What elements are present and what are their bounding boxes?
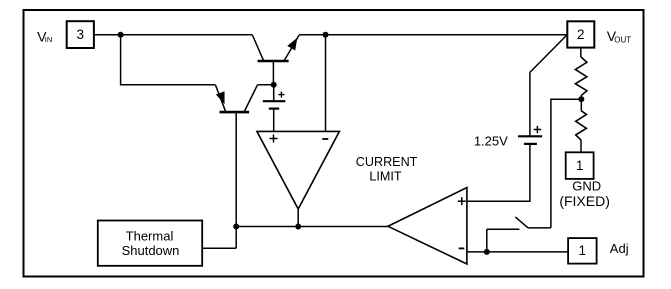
- node: rail junction to current-limit minus: [323, 32, 329, 38]
- svg-text:IN: IN: [45, 35, 53, 44]
- node: bus / thermal shutdown junction: [233, 224, 239, 230]
- svg-text:Adj: Adj: [610, 241, 629, 256]
- switch S1 (open, fixed/adjust select): [487, 217, 551, 229]
- node: R1/R2 junction: [578, 96, 584, 102]
- plus label: [458, 200, 466, 202]
- wire: R1 to junction: [580, 96, 582, 99]
- wire: junction left and down to switch: [551, 99, 581, 228]
- wire: switch branch down to adj net: [486, 229, 488, 252]
- op-amp U1 current limit comparator (points down): [257, 131, 340, 209]
- base lead down: [272, 61, 274, 85]
- svg-text:3: 3: [77, 27, 85, 42]
- svg-text:1: 1: [576, 158, 584, 173]
- battery V1 1.25V reference: [518, 72, 542, 143]
- wire up: [529, 72, 531, 136]
- wire: R2 to GND pin: [580, 140, 582, 152]
- wire: error amp plus input to 1.25V reference: [467, 144, 530, 201]
- transistor Q1 (NPN pass, series in top rail): [252, 35, 299, 85]
- wire: VIN rail (pin3 to Q1 collector): [94, 34, 252, 36]
- wire: current limit output down to bus: [297, 209, 299, 227]
- node: adj junction: [484, 249, 490, 255]
- right lead: [528, 227, 551, 229]
- svg-text:CURRENT: CURRENT: [356, 155, 418, 169]
- short plate: [269, 107, 279, 109]
- node: output junction on bus: [295, 224, 301, 230]
- wire: R1/R2 node down: [580, 99, 582, 110]
- resistor R2: [576, 111, 587, 141]
- base bar: [258, 60, 289, 63]
- transistor Q2 (PNP driver): [215, 85, 273, 248]
- collector wire to Q1 base node: [258, 84, 274, 86]
- pin 1 box (Adj): [568, 238, 597, 264]
- left lead: [487, 228, 520, 230]
- wire: horizontal bus to error amp output: [236, 226, 388, 228]
- plus sign: [278, 94, 284, 96]
- svg-text:1.25V: 1.25V: [474, 133, 508, 148]
- emitter diagonal with arrow in: [215, 85, 225, 111]
- svg-text:GND: GND: [572, 178, 601, 193]
- resistor R1: [575, 57, 587, 96]
- wire: thermal shutdown to bus vertical: [202, 247, 236, 249]
- svg-text:LIMIT: LIMIT: [369, 169, 401, 183]
- collector diagonal: [252, 35, 263, 61]
- node: VIN junction: [118, 32, 124, 38]
- base lead down to thermal bus: [235, 112, 237, 248]
- wire: diagonal from pin 2 to reference: [530, 35, 567, 73]
- svg-text:(FIXED): (FIXED): [559, 193, 610, 209]
- wire: down to current limit minus input: [325, 35, 327, 132]
- svg-text:Shutdown: Shutdown: [122, 243, 180, 258]
- emitter diagonal with arrow out: [284, 35, 299, 61]
- collector diagonal: [245, 85, 258, 111]
- wire: error amp minus input to Adj pin: [467, 251, 568, 253]
- Thermal Shutdown block: [98, 221, 202, 266]
- pin 1 box (GND fixed): [566, 152, 594, 179]
- base bar: [220, 111, 250, 114]
- svg-text:1: 1: [579, 243, 587, 258]
- wire: pin2 down to R1: [580, 48, 582, 57]
- wire: Q1 emitter to VOUT rail: [299, 34, 567, 36]
- minus label: [459, 247, 465, 249]
- plus sign: [534, 129, 541, 131]
- svg-text:Thermal: Thermal: [126, 228, 174, 243]
- pin 3 box (VIN): [67, 21, 94, 48]
- svg-text:2: 2: [577, 27, 585, 42]
- svg-text:OUT: OUT: [614, 35, 631, 44]
- op-amp U2 error amplifier (points left): [388, 188, 467, 265]
- wire: VIN branch down to Q2 emitter: [121, 35, 216, 85]
- node: Q1 base / Q2 collector / reference top: [271, 82, 277, 88]
- minus label: [322, 138, 328, 140]
- short plate (bottom): [524, 143, 537, 145]
- long plate: [263, 100, 286, 102]
- pin 2 box (VOUT): [567, 21, 594, 47]
- battery reference under Q1 base (current limit sense): [263, 85, 286, 132]
- long plate (top): [518, 135, 542, 137]
- arm: [515, 217, 528, 228]
- plus label: [270, 138, 278, 140]
